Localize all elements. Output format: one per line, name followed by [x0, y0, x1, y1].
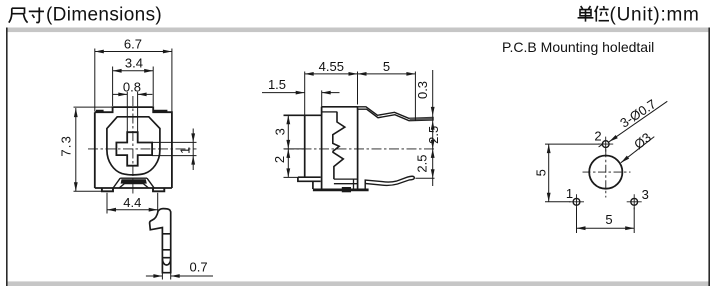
dim 4.4 — [107, 193, 158, 214]
svg-text:6.7: 6.7 — [124, 37, 142, 52]
standoff feet — [102, 188, 164, 191]
svg-text:7.3: 7.3 — [58, 135, 73, 157]
upper terminal leg — [358, 107, 433, 121]
dim 1 (slot width) — [152, 129, 196, 171]
rotor — [107, 117, 160, 175]
slot edge extension lines — [127, 92, 137, 132]
svg-text:0.7: 0.7 — [190, 259, 208, 274]
svg-text:5: 5 — [605, 212, 612, 227]
leader 3-Ø0.7 — [599, 101, 668, 147]
sawtooth rotor interface — [333, 112, 345, 179]
dim 3.4 — [113, 67, 154, 107]
hole 2 (top) — [602, 141, 609, 148]
svg-text:1: 1 — [566, 186, 573, 201]
centerline vertical — [132, 96, 134, 194]
bottom seating band — [313, 188, 369, 191]
cross slot — [116, 132, 152, 166]
dim 0.3 / 2.5 / 2.5 (right) — [415, 70, 434, 186]
dim 0.8 — [113, 93, 153, 95]
svg-text:(Dimensions): (Dimensions) — [46, 5, 162, 26]
dim 5 (horizontal) — [577, 208, 635, 234]
side view body — [284, 107, 358, 189]
hole 1 (bottom left) — [573, 198, 580, 205]
rotation axis centerline — [284, 148, 436, 150]
frame right line — [708, 28, 710, 287]
svg-text:2.5: 2.5 — [415, 155, 430, 173]
svg-text:2.5: 2.5 — [426, 126, 441, 144]
svg-text:P.C.B Mounting holedtail: P.C.B Mounting holedtail — [502, 39, 654, 55]
rotor lip plate — [304, 115, 306, 177]
svg-text:5: 5 — [383, 59, 390, 74]
PCB hole big circle Ø3 — [589, 156, 622, 189]
wiper dark bar — [121, 179, 147, 183]
main body rectangle — [322, 107, 358, 189]
dim 5 (vertical) — [545, 144, 600, 202]
front view body outline — [95, 107, 172, 191]
dim 5 (top) — [358, 72, 416, 122]
frame top gray bar — [6, 28, 710, 33]
dim 0.7 — [146, 273, 213, 280]
dim 7.3 — [74, 107, 113, 191]
leader Ø3 — [621, 137, 654, 163]
dim 1.5 — [262, 90, 340, 115]
frame left line — [6, 28, 8, 287]
hole 3 (bottom right) — [631, 198, 638, 205]
svg-text:2: 2 — [594, 129, 601, 144]
svg-text:3.4: 3.4 — [125, 56, 143, 71]
svg-text:4.4: 4.4 — [123, 195, 141, 210]
dim 4.55 — [305, 72, 358, 116]
svg-text:0.3: 0.3 — [415, 81, 430, 99]
inner bottom line — [334, 179, 358, 188]
title: 单位 (hand-drawn CJK strokes) — [578, 6, 609, 22]
terminal pin side profile — [150, 209, 171, 273]
svg-text:(Unit):mm: (Unit):mm — [610, 5, 700, 26]
svg-text:5: 5 — [533, 169, 548, 176]
dim 6.7 — [95, 49, 172, 112]
centerline horizontal — [88, 148, 197, 150]
frame bottom gray bar — [6, 281, 710, 286]
svg-text:1: 1 — [178, 147, 193, 154]
svg-text:0.8: 0.8 — [123, 79, 141, 94]
thick shoulder chamfer marks — [96, 110, 167, 113]
inner top line — [322, 111, 338, 113]
wiper trapezoid — [113, 178, 154, 188]
center pin stub — [342, 187, 351, 192]
lip foot tab — [298, 177, 321, 181]
svg-text:1.5: 1.5 — [268, 77, 286, 92]
svg-text:2: 2 — [272, 156, 287, 163]
big circle centerlines — [583, 171, 631, 173]
dim 3 / 2 (left) — [284, 115, 305, 177]
svg-text:3: 3 — [273, 128, 288, 135]
svg-text:4.55: 4.55 — [319, 59, 344, 74]
lower terminal leg — [365, 176, 414, 185]
title: 尺寸 (hand-drawn CJK strokes) — [9, 7, 44, 22]
svg-text:3: 3 — [642, 187, 649, 202]
